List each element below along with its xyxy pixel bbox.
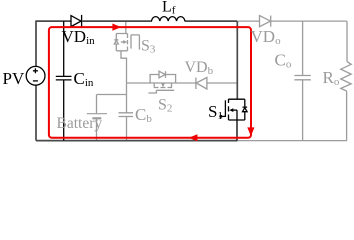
svg-text:PV: PV (3, 69, 25, 88)
svg-text:Battery: Battery (57, 115, 103, 132)
